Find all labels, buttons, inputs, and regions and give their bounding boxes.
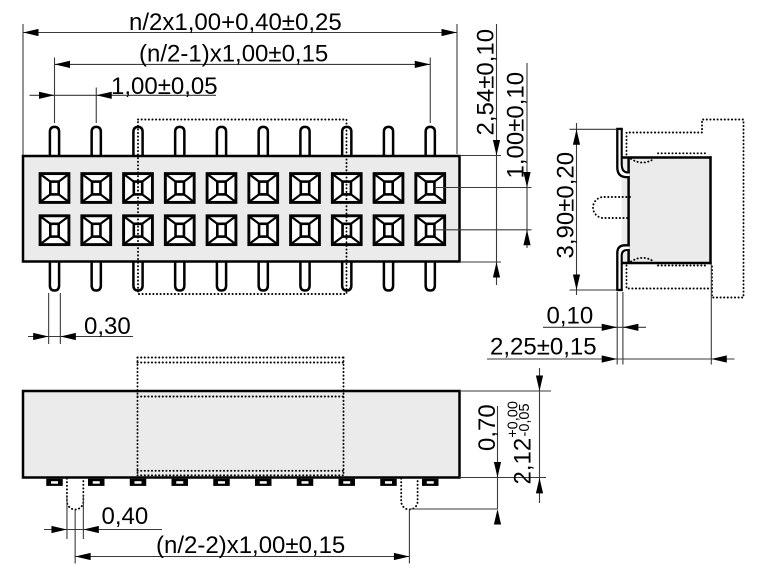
- extension line pin10 centre: [429, 58, 431, 124]
- extension line th-pin left edge: [66, 495, 68, 539]
- socket contact row 2 pos 6: [249, 216, 278, 245]
- top-view lower pin 6: [259, 260, 268, 291]
- top-view upper pin 1: [50, 127, 59, 158]
- top-view lower pin 9: [384, 260, 393, 291]
- leader line socket row 2: [436, 229, 532, 231]
- SMD pad 7 (bottom view): [297, 479, 314, 486]
- dotted through-hole pin (side view, hidden): [593, 197, 630, 218]
- dotted hidden lower outline (side view): [627, 266, 713, 289]
- extension line lead top: [570, 128, 617, 130]
- svg-text:0,30: 0,30: [84, 313, 131, 340]
- socket contact row 1 pos 7: [291, 174, 320, 203]
- top-view upper pin 7: [300, 127, 309, 158]
- top view connector body: [23, 156, 460, 262]
- top-view lower pin 7: [300, 260, 309, 291]
- top-view upper pin 8: [342, 127, 351, 158]
- SMD pad 4 (bottom view): [172, 479, 189, 486]
- socket contact row 2 pos 9: [374, 216, 403, 245]
- extension line th-pin bottom (bottom view): [409, 508, 497, 510]
- top-view lower pin 4: [175, 260, 184, 291]
- dotted chamfer arc above bottom edge: [631, 258, 654, 262]
- top-view upper pin 9: [384, 127, 393, 158]
- extension line pin1 right edge: [59, 293, 61, 344]
- svg-text:0,40: 0,40: [102, 503, 149, 530]
- side view lower SMD lead: [616, 245, 630, 290]
- top-view lower pin 2: [92, 260, 101, 291]
- top-view lower pin 3: [133, 260, 142, 291]
- extension line th-pin right edge: [82, 495, 84, 539]
- extension line right body edge: [456, 24, 458, 154]
- svg-text:(n/2-1)x1,00±0,15: (n/2-1)x1,00±0,15: [139, 41, 328, 68]
- socket contact row 2 pos 2: [82, 216, 111, 245]
- dimension 2,54±0,10: [473, 24, 501, 285]
- top-view upper pin 5: [217, 127, 226, 158]
- dimension 0,30: [28, 313, 133, 340]
- extension line th-pin right centre: [408, 510, 410, 564]
- top-view upper pin 6: [259, 127, 268, 158]
- socket contact row 1 pos 3: [124, 174, 153, 203]
- extension line body bottom (bottom view): [460, 477, 547, 479]
- dimension 2,12 +0,00 -0,05: [506, 368, 544, 503]
- svg-text:1,00±0,05: 1,00±0,05: [111, 73, 218, 100]
- dotted through-hole pin right (bottom view): [401, 479, 417, 510]
- svg-text:(n/2-2)x1,00±0,15: (n/2-2)x1,00±0,15: [156, 532, 345, 559]
- top-view lower pin 10: [426, 260, 435, 291]
- SMD pad 2 (bottom view): [88, 479, 105, 486]
- SMD pad 9 (bottom view): [380, 479, 397, 486]
- extension line pin1 centre: [54, 58, 56, 124]
- dotted chamfer arc below top edge: [631, 159, 654, 163]
- top-view lower pin 8: [342, 260, 351, 291]
- socket contact row 1 pos 8: [332, 174, 361, 203]
- socket contact row 2 pos 7: [291, 216, 320, 245]
- top-view lower pin 5: [217, 260, 226, 291]
- svg-text:2,54±0,10: 2,54±0,10: [473, 29, 500, 136]
- socket contact row 1 pos 9: [374, 174, 403, 203]
- socket contact row 1 pos 6: [249, 174, 278, 203]
- extension line body top (bottom view): [460, 390, 552, 392]
- dimension 2,25±0,15: [487, 334, 735, 363]
- dotted tape outline (bottom view): [138, 358, 344, 476]
- leader line socket row 1: [436, 187, 532, 189]
- socket contact row 1 pos 1: [40, 174, 69, 203]
- dotted packaging outline (top view): [138, 120, 347, 295]
- socket contact row 2 pos 5: [207, 216, 236, 245]
- svg-text:0,10: 0,10: [547, 303, 594, 330]
- socket contact row 1 pos 10: [416, 174, 445, 203]
- bottom view connector body: [23, 391, 460, 478]
- dimension n/2x1,00+0,40±0,25: [23, 9, 457, 36]
- socket contact row 1 pos 5: [207, 174, 236, 203]
- svg-text:2,25±0,15: 2,25±0,15: [490, 334, 597, 361]
- SMD pad 3 (bottom view): [130, 479, 147, 486]
- svg-text:3,90±0,20: 3,90±0,20: [553, 152, 580, 259]
- SMD pad 1 (bottom view): [46, 479, 63, 486]
- SMD pad 8 (bottom view): [339, 479, 356, 486]
- extension line lead outer face: [616, 292, 618, 365]
- dotted through-hole pin left (bottom view): [67, 479, 83, 510]
- dotted line above body top edge: [658, 152, 708, 154]
- socket contact row 1 pos 2: [82, 174, 111, 203]
- socket contact row 2 pos 10: [416, 216, 445, 245]
- dimension (n/2-2)x1,00±0,15: [75, 532, 409, 560]
- top-view upper pin 3: [133, 127, 142, 158]
- leader line body top edge: [460, 155, 502, 157]
- dimension 1,00±0,05: [30, 73, 218, 100]
- side view connector body: [621, 156, 712, 264]
- dimension 0,70: [474, 404, 501, 524]
- socket contact row 2 pos 4: [165, 216, 194, 245]
- extension line lead bottom: [570, 289, 617, 291]
- top-view upper pin 10: [426, 127, 435, 158]
- top-view lower pin 1: [50, 260, 59, 291]
- socket contact row 1 pos 4: [165, 174, 194, 203]
- top-view upper pin 4: [175, 127, 184, 158]
- dimension 0,40: [44, 503, 162, 533]
- dotted mating face outline (side view): [627, 120, 744, 298]
- dotted line below body bottom edge: [658, 265, 706, 267]
- socket contact row 2 pos 1: [40, 216, 69, 245]
- dimension 3,90±0,20: [553, 123, 581, 295]
- dimension 0,10: [543, 303, 646, 331]
- dimension (n/2-1)x1,00±0,15: [55, 41, 431, 69]
- extension line body right face (side view): [710, 265, 712, 365]
- SMD pad 10 (bottom view): [422, 479, 439, 486]
- svg-text:0,70: 0,70: [474, 404, 501, 451]
- extension line lead inner face: [622, 292, 624, 365]
- extension line pin2 centre: [95, 88, 97, 124]
- top-view upper pin 2: [92, 127, 101, 158]
- socket contact row 2 pos 8: [332, 216, 361, 245]
- socket contact row 2 pos 3: [124, 216, 153, 245]
- dimension 1,00±0,10: [503, 63, 531, 248]
- leader line body bottom edge: [460, 261, 502, 263]
- side view upper SMD lead: [616, 129, 630, 177]
- extension line th-pin left centre: [74, 510, 76, 564]
- svg-text:2,12+0,00-0,05: 2,12+0,00-0,05: [506, 401, 537, 484]
- svg-text:1,00±0,10: 1,00±0,10: [503, 72, 530, 179]
- extension line left body edge: [22, 24, 24, 155]
- SMD pad 5 (bottom view): [213, 479, 230, 486]
- svg-text:n/2x1,00+0,40±0,25: n/2x1,00+0,40±0,25: [129, 9, 342, 36]
- extension line pin1 left edge: [48, 293, 50, 344]
- SMD pad 6 (bottom view): [255, 479, 272, 486]
